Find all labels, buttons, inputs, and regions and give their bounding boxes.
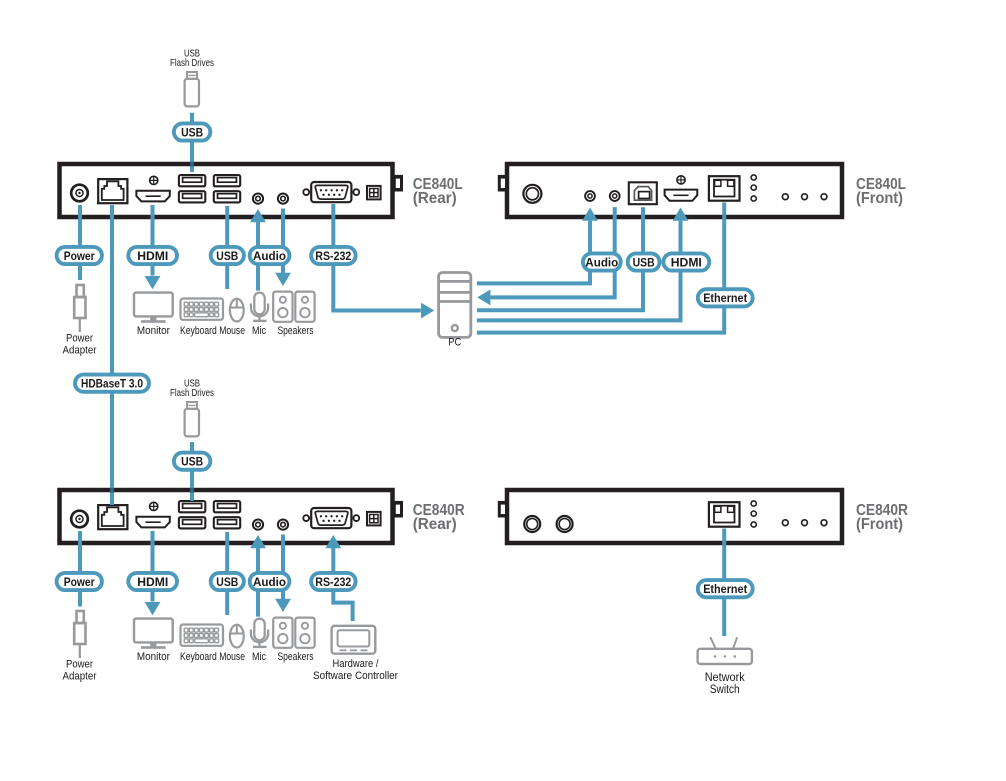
- arrowhead: audio into speakers: [275, 273, 291, 286]
- port: front HDMI: [677, 176, 685, 184]
- svg-text:Power: Power: [66, 333, 93, 345]
- ports: two front circles: [524, 516, 540, 532]
- wire: USB to keyboard/mouse: [225, 206, 229, 289]
- label capsule: HDBaseT 3.0: [75, 375, 149, 392]
- arrowhead: into audio jack 1 (R rear): [250, 535, 266, 548]
- icon: mic (top): [251, 293, 268, 321]
- icon: keyboard (bottom): [181, 625, 224, 646]
- port: front audio jack 1: [585, 191, 595, 201]
- svg-text:Ethernet: Ethernet: [703, 582, 747, 596]
- wire: power jack to power adapter (R): [78, 531, 82, 607]
- wire: HDMI out to monitor: [151, 205, 155, 276]
- svg-text:(Rear): (Rear): [413, 190, 457, 207]
- wire: front Ethernet to PC: [477, 203, 724, 333]
- wire-over-border crossing: flash USB line x top border (R rear): [190, 488, 194, 493]
- wire: USB flash drives to CE840L rear USB port: [190, 113, 194, 172]
- svg-text:HDMI: HDMI: [137, 249, 168, 263]
- device panel: CE840R rear: [60, 490, 404, 543]
- port: front RJ-45 Ethernet (R): [709, 502, 740, 527]
- wire: RS-232 to PC: [333, 204, 421, 311]
- wire: HDMI out to monitor (R): [151, 531, 155, 602]
- svg-text:HDMI: HDMI: [671, 255, 702, 269]
- label capsule: USB (kb/mouse R): [211, 573, 244, 590]
- svg-text:Ethernet: Ethernet: [703, 291, 747, 305]
- label capsule: HDMI: [128, 247, 177, 264]
- wire: front audio jack1 from PC: [477, 221, 590, 284]
- wire: RS-232 to hardware/software controller: [333, 548, 352, 622]
- svg-text:Power: Power: [64, 249, 95, 263]
- svg-text:Audio: Audio: [585, 255, 618, 269]
- svg-text:Speakers: Speakers: [278, 325, 314, 337]
- svg-text:RS-232: RS-232: [315, 249, 351, 263]
- label capsule: RS-232 (R rear): [311, 573, 356, 590]
- LEDs: column of 3: [751, 175, 756, 180]
- svg-text:Flash Drives: Flash Drives: [170, 387, 214, 399]
- svg-text:Monitor: Monitor: [137, 325, 170, 337]
- svg-text:Network: Network: [705, 672, 745, 684]
- svg-text:Adapter: Adapter: [63, 345, 97, 357]
- label capsule: Audio (front): [583, 253, 621, 270]
- icon: PC tower: [439, 273, 471, 338]
- icon: power adapter (bottom): [74, 611, 85, 658]
- svg-text:PC: PC: [448, 337, 461, 349]
- icon: speakers (top): [273, 292, 292, 322]
- label capsule: Audio (R): [250, 573, 290, 590]
- arrowhead: into front HDMI: [673, 208, 689, 221]
- wire: mic to audio jack 1 (R): [256, 548, 260, 617]
- icon: USB flash drive (bottom): [185, 402, 199, 436]
- svg-text:Speakers: Speakers: [278, 651, 314, 663]
- svg-text:Keyboard Mouse: Keyboard Mouse: [180, 325, 245, 337]
- svg-text:(Rear): (Rear): [413, 516, 457, 533]
- label capsule: USB (front): [628, 253, 660, 270]
- icon: mouse (bottom): [230, 625, 244, 648]
- arrowhead: into front audio jack 1: [582, 208, 598, 221]
- label capsule: Ethernet (L front): [698, 289, 753, 306]
- icon: monitor (top): [134, 293, 173, 323]
- device panel: CE840L front: [498, 164, 842, 217]
- icon: mouse (top): [230, 299, 244, 322]
- wire: front HDMI from PC: [477, 221, 681, 321]
- svg-text:Mic: Mic: [252, 325, 266, 337]
- label capsule: HDMI (front): [663, 253, 709, 270]
- arrowhead: RS-232 into PC: [421, 303, 434, 319]
- wire: front audio jack2 to PC: [491, 207, 615, 297]
- icon: mic (bottom): [251, 619, 268, 647]
- svg-text:Adapter: Adapter: [63, 671, 97, 683]
- wire: power jack to power adapter: [78, 205, 82, 280]
- svg-text:Switch: Switch: [710, 684, 740, 696]
- svg-text:RS-232: RS-232: [315, 575, 351, 589]
- svg-text:Monitor: Monitor: [137, 651, 170, 663]
- svg-text:USB: USB: [181, 125, 203, 139]
- svg-text:(Front): (Front): [856, 516, 903, 533]
- wire-over-border crossing: flash USB line x top border (L rear): [190, 162, 194, 167]
- icon: keyboard (top): [181, 299, 224, 320]
- label capsule: Ethernet (R front): [698, 580, 753, 597]
- device panel: CE840L rear: [60, 164, 404, 217]
- wire-over-border crossing: HDBaseT line x top border (R rear): [110, 488, 114, 493]
- wire: audio jack 2 to speakers (R): [281, 535, 285, 600]
- label capsule: Audio: [250, 247, 290, 264]
- port: front power/link circle: [523, 185, 541, 203]
- svg-text:USB: USB: [633, 255, 655, 269]
- label capsule: Power (R): [57, 573, 102, 590]
- wire: front USB-B to PC: [477, 207, 643, 310]
- wire: USB flash drives to CE840R rear USB port: [190, 442, 194, 501]
- LEDs: row of 3 (R front): [782, 520, 788, 526]
- arrowhead: audio into PC: [477, 290, 490, 306]
- svg-text:Audio: Audio: [253, 249, 286, 263]
- wire: HDBaseT: CE840L rear RJ-45 to CE840R rear RJ-45: [110, 205, 114, 505]
- wire: USB to keyboard/mouse (R): [225, 532, 229, 615]
- icon: speakers (bottom): [273, 618, 292, 648]
- icon: monitor (bottom): [134, 619, 173, 649]
- svg-text:(Front): (Front): [856, 190, 903, 207]
- label capsule: RS-232 (L rear): [311, 247, 356, 264]
- label capsule: HDMI (R): [128, 573, 177, 590]
- svg-text:USB: USB: [216, 249, 238, 263]
- svg-text:Keyboard Mouse: Keyboard Mouse: [180, 651, 245, 663]
- arrowhead: into audio jack 1 (L rear): [250, 209, 266, 222]
- port: front RJ-45 Ethernet: [709, 176, 740, 201]
- svg-text:USB: USB: [181, 455, 203, 469]
- LEDs: row of 3: [782, 194, 788, 200]
- port: USB Type-B: [629, 182, 657, 204]
- svg-text:Hardware /: Hardware /: [333, 658, 380, 670]
- icon: power adapter (top): [74, 285, 85, 332]
- arrowhead: into RS-232 DB9 (R rear): [325, 535, 341, 548]
- svg-text:HDBaseT 3.0: HDBaseT 3.0: [81, 377, 143, 391]
- arrowhead: HDMI into monitor: [145, 276, 161, 289]
- svg-text:USB: USB: [216, 575, 238, 589]
- port: front audio jack 2: [610, 191, 620, 201]
- wire: audio jack 2 to speakers: [281, 209, 285, 274]
- svg-text:Mic: Mic: [252, 651, 266, 663]
- label capsule: USB (kb/mouse): [211, 247, 244, 264]
- icon: hardware/software controller: [332, 626, 376, 654]
- label capsule: Power: [57, 247, 102, 264]
- wire: front Ethernet (R) to network switch: [722, 529, 726, 637]
- svg-text:Flash Drives: Flash Drives: [170, 57, 214, 69]
- arrowhead: audio into speakers (R): [275, 599, 291, 612]
- svg-text:Power: Power: [64, 575, 95, 589]
- svg-text:Software Controller: Software Controller: [313, 670, 398, 682]
- wire: mic to audio jack 1: [256, 222, 260, 291]
- device panel: CE840R front: [498, 490, 842, 543]
- label capsule: USB (flash, bottom): [174, 453, 210, 470]
- svg-text:Power: Power: [66, 659, 93, 671]
- arrowhead: HDMI into monitor (R): [145, 602, 161, 615]
- label capsule: USB (flash, top): [174, 123, 210, 140]
- svg-text:HDMI: HDMI: [137, 575, 168, 589]
- icon: USB flash drive (top): [185, 72, 199, 106]
- icon: network switch: [698, 637, 752, 664]
- LEDs: column of 3 (R front): [751, 501, 756, 506]
- svg-text:Audio: Audio: [253, 575, 286, 589]
